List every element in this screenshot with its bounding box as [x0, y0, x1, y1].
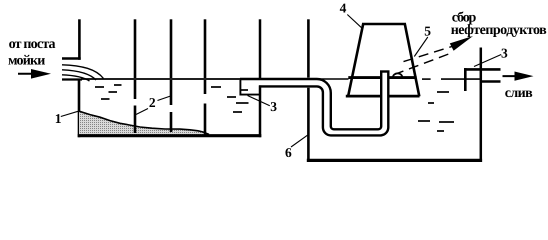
svg-text:3: 3 [501, 45, 508, 60]
leader to label 3 (left) [248, 96, 270, 106]
svg-text:от поста: от поста [9, 37, 56, 52]
leader label 4 [347, 15, 361, 28]
scum plate (right outlet) [464, 68, 467, 91]
funnel right side [405, 24, 420, 97]
pipe top cap [380, 70, 390, 72]
dashed arrow head [450, 36, 473, 51]
svg-text:5: 5 [424, 24, 431, 39]
water line tank 1 [81, 78, 240, 80]
svg-text:2: 2 [149, 95, 156, 110]
transfer pipe and U-trap inner boundary [240, 72, 381, 129]
svg-text:нефтепродуктов: нефтепродуктов [451, 23, 547, 38]
outlet bottom bar (right) [480, 80, 501, 83]
leader label 2 to baffle 1 [136, 109, 148, 115]
inlet flow curve 1 [62, 65, 104, 79]
baffle 2 below water segments [170, 80, 173, 105]
tank 1 left wall lower [78, 80, 81, 137]
outlet top bar (right) [464, 68, 501, 71]
tank 1 left wall upper [78, 19, 81, 60]
baffle 3 below water segments [204, 80, 207, 94]
svg-text:мойки: мойки [8, 54, 45, 69]
water level dashes tank 2 [418, 92, 454, 131]
funnel left side [348, 24, 363, 97]
leader label 6 [291, 135, 308, 147]
tank 1 inlet bottom stub [62, 78, 82, 80]
drain arrow [503, 72, 534, 81]
leader label 1 [61, 111, 78, 116]
skimmer dome [393, 73, 402, 77]
water line tank 2 right part [422, 78, 431, 80]
water line tank 2 left part [317, 78, 349, 80]
oil collection dashed line upper [404, 46, 453, 61]
leader label 3 (right) [474, 55, 501, 67]
funnel bottom edge [346, 95, 380, 98]
svg-text:1: 1 [55, 111, 62, 126]
leader label 5 [414, 37, 428, 57]
outlet lip of item 3 (left) [240, 80, 260, 95]
inlet flow curve 3 [62, 75, 90, 81]
tank 1 inlet top stub [62, 57, 81, 60]
tank 2 left wall [307, 19, 310, 77]
tank 2 right wall [480, 48, 483, 162]
leader label 2 to baffle 2 [158, 96, 171, 101]
water level dashes tank 1 [95, 85, 249, 112]
baffle 3 upper [204, 19, 207, 78]
tank 2 bottom [307, 159, 482, 162]
svg-text:4: 4 [340, 1, 347, 16]
svg-text:3: 3 [270, 99, 277, 114]
svg-text:6: 6 [285, 145, 292, 160]
sediment top boundary curve [79, 111, 209, 134]
svg-text:слив: слив [505, 86, 533, 101]
transfer pipe and U-trap outer boundary [259, 72, 388, 135]
inlet flow curve 2 [62, 70, 96, 80]
baffle 2 upper [170, 19, 173, 78]
oil collection dashed line lower [394, 53, 451, 74]
baffle 1 below water segments [134, 80, 137, 99]
funnel rim band at water level [348, 76, 380, 79]
sediment deposit (item 1) fill [79, 111, 209, 136]
tank 1 right wall [259, 19, 262, 80]
tank 1 bottom [78, 134, 262, 137]
baffle 1 upper [134, 19, 137, 78]
funnel (item 4) top edge [362, 23, 406, 26]
inlet flow arrow [18, 69, 51, 79]
